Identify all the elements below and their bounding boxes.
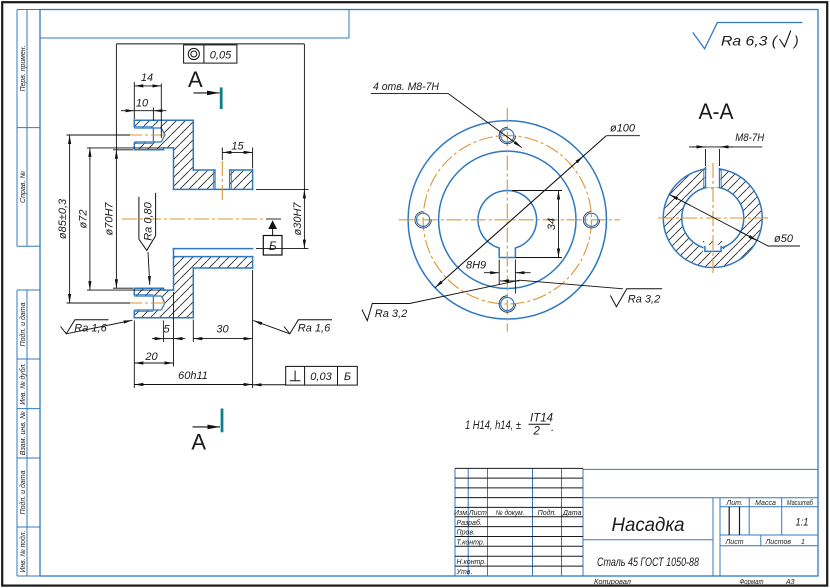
dim dia30H7 xyxy=(256,44,309,249)
svg-text:ø72: ø72 xyxy=(77,210,89,229)
general roughness Ra 6,3 xyxy=(693,23,803,49)
svg-text:М8-7Н: М8-7Н xyxy=(735,132,764,144)
A-A bore circle xyxy=(682,187,744,249)
roughness Ra 1,6 left xyxy=(61,320,133,334)
left column cells xyxy=(17,10,40,577)
svg-text:0,03: 0,03 xyxy=(310,371,332,383)
bolt hole top xyxy=(499,127,515,143)
section A mark bottom xyxy=(191,409,222,455)
section A mark top xyxy=(188,67,221,109)
centerline main axis xyxy=(122,135,266,303)
svg-text:1:1: 1:1 xyxy=(796,517,809,529)
svg-text:ø70H7: ø70H7 xyxy=(104,202,116,236)
svg-text:Утв.: Утв. xyxy=(456,569,473,576)
A-A dim M8-7H xyxy=(689,147,762,166)
title block black table lines xyxy=(455,468,583,566)
svg-text:8Н9: 8Н9 xyxy=(466,260,486,272)
roughness Ra 1,6 right xyxy=(253,320,332,334)
hatch top half xyxy=(134,120,252,189)
A-A outer circle xyxy=(663,169,762,268)
dim dia70H7 xyxy=(113,44,133,288)
svg-text:1: 1 xyxy=(801,539,805,546)
dim 8H9 keyway xyxy=(484,260,531,294)
bolt hole bottom xyxy=(499,296,515,312)
general tolerances note xyxy=(465,413,554,438)
svg-text:ø50: ø50 xyxy=(774,233,794,245)
A-A keyway gap mask xyxy=(704,245,722,251)
svg-text:№ докум.: № докум. xyxy=(496,509,525,517)
svg-text:Н.контр.: Н.контр. xyxy=(457,559,487,566)
svg-text:Инв. № дубл.: Инв. № дубл. xyxy=(19,363,27,405)
svg-text:2: 2 xyxy=(533,426,541,438)
svg-text:IT14: IT14 xyxy=(530,413,553,425)
center hole with keyway xyxy=(478,191,537,258)
svg-text:4 отв. М8-7Н: 4 отв. М8-7Н xyxy=(373,81,439,93)
svg-text:А: А xyxy=(188,67,203,92)
svg-text:Масса: Масса xyxy=(755,500,776,507)
svg-text:60h11: 60h11 xyxy=(178,370,208,382)
centerline radial hole xyxy=(221,161,223,201)
svg-text:Насадка: Насадка xyxy=(612,515,685,536)
svg-text:.: . xyxy=(551,422,554,434)
svg-text:20: 20 xyxy=(144,351,158,363)
Lit cell black dividers xyxy=(729,507,739,535)
svg-text:А: А xyxy=(191,430,206,455)
svg-text:Б: Б xyxy=(344,371,351,383)
bolt hole bottom xyxy=(134,295,165,312)
dim dia72 xyxy=(87,148,164,290)
svg-text:Инв. № подл.: Инв. № подл. xyxy=(19,530,27,572)
dim dia85 xyxy=(67,135,131,303)
centerline bolt hole bottom xyxy=(127,302,169,304)
tolerance frame concentricity 0,05 xyxy=(116,44,304,63)
title block small labels xyxy=(454,499,814,586)
svg-text:Подп.: Подп. xyxy=(538,509,557,517)
svg-text:Лист: Лист xyxy=(725,539,744,546)
dim 14 xyxy=(134,82,161,138)
svg-text:34: 34 xyxy=(546,218,558,230)
dim 60h11 xyxy=(134,270,252,388)
svg-text:Справ. №: Справ. № xyxy=(20,171,27,203)
svg-text:0,05: 0,05 xyxy=(210,50,232,62)
radial M8 hole in hub xyxy=(213,170,231,189)
roughness Ra 3,2 right xyxy=(520,280,663,307)
leader 4 holes M8-7H xyxy=(371,93,522,147)
svg-text:Масштаб: Масштаб xyxy=(787,499,814,507)
svg-text:Пров.: Пров. xyxy=(457,530,476,537)
svg-text:1 Н14, h14, ±: 1 Н14, h14, ± xyxy=(465,420,521,432)
svg-text:14: 14 xyxy=(141,72,153,84)
svg-text:Б: Б xyxy=(269,239,277,253)
A-A hatch annulus xyxy=(663,166,762,267)
dim 20 xyxy=(134,321,173,367)
dim 10 xyxy=(121,108,166,121)
bore circle dia70 xyxy=(439,151,576,288)
svg-text:Ra 0,80: Ra 0,80 xyxy=(142,201,154,240)
svg-text:Лит.: Лит. xyxy=(725,500,742,507)
svg-text:ø100: ø100 xyxy=(610,123,636,135)
svg-text:Изм.: Изм. xyxy=(454,510,469,517)
svg-text:Формат: Формат xyxy=(740,579,764,586)
bolt hole right xyxy=(583,212,599,228)
dim 30 xyxy=(193,320,252,343)
bolt hole left xyxy=(415,212,431,228)
svg-text:Перв. примен.: Перв. примен. xyxy=(20,45,27,91)
svg-text:Лист: Лист xyxy=(468,510,487,517)
A-A keyway notch xyxy=(705,246,721,252)
svg-text:ø30H7: ø30H7 xyxy=(292,202,304,236)
svg-text:Взам. инв. №: Взам. инв. № xyxy=(20,411,27,455)
svg-text:Копировал: Копировал xyxy=(594,579,631,586)
svg-text:Разраб.: Разраб. xyxy=(457,519,482,527)
svg-text:Подп. и дата: Подп. и дата xyxy=(19,470,27,514)
leader dia100 xyxy=(435,136,640,288)
datum B symbol xyxy=(263,219,282,255)
svg-text:Ra 3,2: Ra 3,2 xyxy=(628,293,660,305)
svg-text:Подп. и дата: Подп. и дата xyxy=(19,302,27,346)
svg-text:Т.контр.: Т.контр. xyxy=(457,539,485,546)
outer circle dia100 xyxy=(408,121,606,319)
roughness Ra 3,2 left xyxy=(362,280,520,320)
roughness Ra 0,80 in bore xyxy=(139,193,156,285)
part outline blue xyxy=(134,120,252,318)
svg-text:Дата: Дата xyxy=(562,510,582,517)
svg-text:10: 10 xyxy=(136,97,149,109)
frame top additional box xyxy=(40,10,349,39)
bolt hole top (threaded, blind) xyxy=(134,127,165,144)
svg-text:5: 5 xyxy=(163,323,170,335)
title block blue lines xyxy=(455,468,818,576)
left column rotated labels xyxy=(19,45,27,572)
dim 5 xyxy=(152,292,185,367)
svg-text:30: 30 xyxy=(216,323,229,335)
A-A centerlines xyxy=(658,163,768,273)
A-A slot gap mask xyxy=(706,162,718,188)
svg-text:Ra 1,6: Ra 1,6 xyxy=(298,323,331,335)
fraction bar xyxy=(529,423,551,425)
svg-text:15: 15 xyxy=(231,140,244,152)
svg-text:А-А: А-А xyxy=(699,99,734,124)
hatch bottom half xyxy=(134,257,252,318)
svg-text:Ra 3,2: Ra 3,2 xyxy=(375,308,407,320)
front view centerlines xyxy=(399,108,620,332)
perpendicularity frame 0,03 B xyxy=(253,366,358,385)
svg-text:Листов: Листов xyxy=(765,539,792,546)
svg-text:ø85±0,3: ø85±0,3 xyxy=(57,198,69,239)
dim 15 xyxy=(222,148,252,169)
svg-text:А3: А3 xyxy=(785,579,795,586)
svg-text:Ra 6,3 (: Ra 6,3 ( xyxy=(721,33,778,49)
svg-text:Сталь 45 ГОСТ 1050-88: Сталь 45 ГОСТ 1050-88 xyxy=(597,557,699,569)
dim 34 xyxy=(512,191,562,258)
bolt circle dia85 centerline xyxy=(423,136,591,304)
centerline bolt hole top xyxy=(127,134,169,136)
A-A dia50 leader xyxy=(669,195,800,247)
svg-text:Ra 1,6: Ra 1,6 xyxy=(74,323,107,335)
A-A M8 slot xyxy=(704,168,722,188)
